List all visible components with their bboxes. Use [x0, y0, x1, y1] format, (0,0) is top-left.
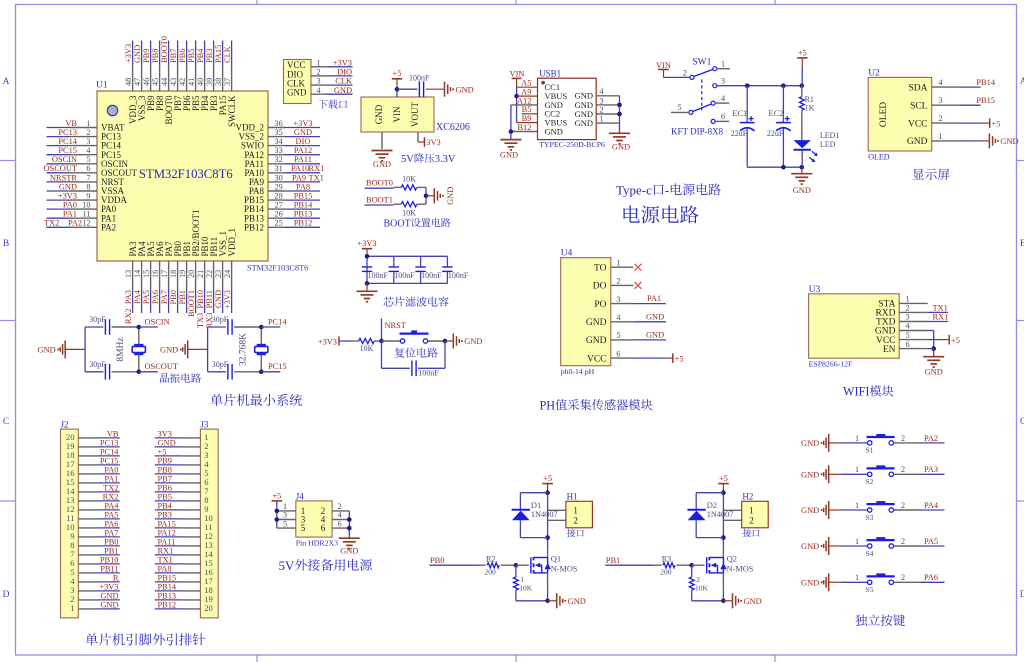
svg-text:GND: GND: [294, 128, 312, 137]
wire/net PB14: [959, 78, 995, 87]
wire USB1 right GND bus: [617, 96, 622, 133]
svg-text:PB10: PB10: [100, 556, 119, 565]
wire VIN to VBUS pins: [514, 78, 519, 122]
download-port pin 2 wire/net DIO: [311, 68, 353, 77]
svg-text:C: C: [1020, 417, 1024, 427]
svg-text:33: 33: [275, 146, 283, 155]
svg-text:+5: +5: [675, 354, 684, 363]
J3 pin 9 wire/net PB4: [155, 502, 209, 515]
svg-text:3: 3: [599, 96, 603, 105]
svg-text:200: 200: [660, 568, 672, 577]
svg-text:1: 1: [616, 258, 620, 267]
power port 3V3 at VOUT: [418, 132, 441, 147]
svg-text:RX2: RX2: [103, 493, 119, 502]
J3 pin 10 wire/net PB3: [155, 511, 213, 524]
svg-text:4: 4: [938, 78, 942, 87]
J3 pin 7 wire/net PB6: [155, 484, 210, 497]
J2 pin 7 wire/net PB1: [70, 547, 120, 560]
svg-text:PB8: PB8: [158, 466, 172, 475]
svg-text:10K: 10K: [519, 584, 533, 593]
svg-text:C: C: [3, 417, 9, 427]
svg-text:2: 2: [599, 105, 603, 114]
svg-text:N-MOS: N-MOS: [551, 565, 578, 574]
svg-text:PA12: PA12: [294, 146, 312, 155]
svg-text:1: 1: [721, 60, 725, 69]
svg-text:6: 6: [321, 523, 326, 533]
U1 pin 21 PB10 wire/net TX3 PB10: [196, 236, 210, 328]
wire/net GND pin4: [633, 312, 666, 322]
svg-text:+5: +5: [158, 448, 167, 457]
svg-text:PB13: PB13: [294, 210, 313, 219]
U1 pin 7 NRST wire/net NRSTR: [47, 173, 125, 187]
U1 pin 3 PC14 wire/net PC14: [47, 137, 122, 151]
svg-text:PA7: PA7: [160, 290, 169, 304]
J2 pin 6 wire/net PB10: [70, 556, 120, 569]
svg-text:SW1: SW1: [692, 58, 711, 68]
svg-text:PA9: PA9: [292, 173, 306, 182]
svg-text:XC6206: XC6206: [436, 122, 470, 133]
svg-text:GND: GND: [500, 151, 518, 160]
svg-text:GND: GND: [456, 85, 474, 94]
svg-text:B12: B12: [517, 122, 531, 132]
svg-text:OSCIN: OSCIN: [145, 317, 170, 326]
pushbutton reset switch: [382, 330, 448, 343]
USB1 right pin 3 GND: [575, 96, 620, 110]
svg-text:VIN: VIN: [392, 106, 402, 122]
wire 32.768K crystal left rail: [207, 327, 209, 372]
svg-text:PA11: PA11: [294, 155, 312, 164]
svg-text:STM32F103C8T6: STM32F103C8T6: [139, 167, 233, 181]
svg-text:1: 1: [855, 573, 859, 582]
svg-text:PB15: PB15: [294, 192, 313, 201]
label 5V-to-3.3V title: [401, 153, 456, 165]
wire S5 to net PA6: [894, 573, 945, 582]
ground port GND at S3: [801, 501, 829, 519]
switch SW1 KFT DIP-8X8: [671, 58, 730, 137]
wire SW1 pin3 to +5 rail: [717, 83, 804, 88]
svg-text:6: 6: [86, 164, 90, 173]
U1 pin 47 VSS_3 wire/net GND: [133, 41, 147, 122]
U1 pin 43 PB7 wire/net PB7: [169, 41, 183, 112]
svg-text:VB: VB: [107, 430, 119, 439]
capacitor EC2 22uF electrolytic: [767, 86, 791, 168]
label BOOT circuit title: [384, 218, 451, 229]
U4 pin 4 GND: [586, 313, 633, 328]
svg-text:5V: 5V: [279, 558, 296, 573]
svg-text:PB6: PB6: [158, 484, 172, 493]
svg-text:PA11: PA11: [158, 538, 176, 547]
svg-text:LED: LED: [820, 140, 836, 149]
svg-text:3: 3: [616, 295, 620, 304]
svg-text:1: 1: [520, 575, 524, 584]
svg-text:GND: GND: [100, 592, 118, 601]
svg-text:PC15: PC15: [268, 362, 287, 371]
U1 pin 33 PA12 wire/net PA12: [244, 146, 320, 160]
svg-text:D: D: [1020, 590, 1024, 600]
svg-text:PC14: PC14: [58, 137, 77, 146]
svg-text:CLK: CLK: [223, 46, 232, 63]
J2 pin 4 wire/net R: [70, 574, 120, 587]
svg-text:2: 2: [573, 515, 578, 525]
USB1 pin B12 GND: [511, 122, 563, 137]
wire S3 to net PA4: [894, 501, 945, 510]
svg-text:PA6: PA6: [104, 520, 118, 529]
U4 pin 5 GND: [586, 331, 633, 346]
U1 pin 41 PB5 wire/net PB5: [187, 41, 201, 112]
J4 right pin 6 wire: [332, 519, 349, 528]
svg-text:RX1: RX1: [309, 164, 325, 173]
svg-text:12: 12: [82, 219, 90, 228]
J4 left pin 5 wire: [277, 519, 296, 528]
U3 pin 5 VCC: [876, 331, 928, 346]
U1 pin 25 PB12 wire/net PB12: [244, 219, 320, 233]
download-port pin 1 wire/net +3V3: [311, 58, 353, 67]
svg-text:1: 1: [905, 295, 909, 304]
wire J4 left +5 rail: [275, 501, 280, 528]
J3 pin 11 wire/net PA15: [155, 520, 213, 533]
svg-text:STM32F103C8T6: STM32F103C8T6: [247, 264, 308, 273]
ground port GND at Q2: [723, 593, 761, 608]
U1 pin 28 PB15 wire/net PB15: [244, 192, 320, 206]
svg-text:PB9: PB9: [158, 457, 172, 466]
U1 pin 16 PA6 wire/net PA6: [151, 241, 165, 313]
U1 pin 19 PB1 wire/net PB1: [178, 241, 192, 313]
svg-text:U4: U4: [561, 249, 573, 259]
svg-text:1N4007: 1N4007: [531, 510, 558, 519]
J2 pin 1 wire/net GND: [70, 601, 120, 614]
pushbutton S5: [866, 573, 895, 594]
U4 pin 6 VCC: [587, 349, 633, 364]
wire/net PB1: [605, 556, 651, 565]
svg-text:GND: GND: [1000, 137, 1018, 146]
resistor 10K reset: [339, 338, 381, 352]
svg-text:PC13: PC13: [100, 439, 119, 448]
wire GND to S3: [829, 501, 868, 510]
U1 pin 34 SWIO wire/net DIO: [241, 137, 320, 151]
svg-text:R: R: [113, 574, 119, 583]
svg-text:26: 26: [275, 210, 283, 219]
svg-text:37: 37: [223, 78, 232, 86]
svg-text:PB0: PB0: [169, 290, 178, 304]
svg-text:VDD_1: VDD_1: [227, 228, 237, 257]
svg-text:2: 2: [901, 573, 905, 582]
svg-text:GND: GND: [801, 506, 819, 515]
wire GND to S1: [829, 434, 868, 443]
svg-text:GND: GND: [801, 579, 819, 588]
wire +5 rail to drain: [545, 490, 550, 557]
svg-text:PB12: PB12: [158, 601, 177, 610]
ground port GND at BOOT divider: [434, 187, 455, 205]
svg-text:GND: GND: [38, 346, 56, 355]
svg-text:GND: GND: [446, 187, 455, 205]
node gate junction: [689, 563, 704, 568]
svg-text:GND: GND: [612, 142, 630, 151]
label filter capacitors title: [383, 297, 448, 307]
wire GND to S4: [829, 537, 868, 546]
svg-text:BOOT1: BOOT1: [366, 195, 393, 204]
svg-text:B: B: [3, 239, 9, 249]
svg-text:ph0-14 pH: ph0-14 pH: [561, 367, 595, 376]
svg-text:1: 1: [855, 537, 859, 546]
J3 pin 15 wire/net TX1: [155, 556, 213, 569]
svg-text:PA5: PA5: [924, 537, 938, 546]
connector H2 body: [742, 492, 769, 537]
U2 pin 3 SCL: [910, 96, 959, 111]
J4 right pin 2 wire: [332, 502, 349, 511]
svg-text:PA5: PA5: [104, 511, 118, 520]
svg-text:25: 25: [275, 219, 283, 228]
svg-text:1: 1: [855, 465, 859, 474]
svg-text:Q1: Q1: [551, 554, 561, 564]
svg-text:PA1: PA1: [63, 210, 77, 219]
USB1 pin B9 VBUS: [517, 113, 568, 128]
svg-text:1: 1: [855, 501, 859, 510]
J3 pin 16 wire/net PA8: [155, 565, 214, 578]
no-connect X on U4 pin2: [635, 282, 642, 289]
svg-text:1: 1: [599, 115, 603, 124]
svg-text:PB5: PB5: [187, 49, 196, 63]
svg-text:PB12: PB12: [294, 219, 313, 228]
svg-text:43: 43: [169, 78, 178, 86]
svg-text:GND: GND: [586, 336, 607, 346]
led LED1: [794, 131, 840, 167]
svg-text:+5: +5: [951, 336, 960, 345]
svg-text:5: 5: [301, 523, 306, 533]
svg-text:30pF: 30pF: [212, 360, 229, 369]
svg-text:U3: U3: [809, 285, 821, 295]
svg-text:PB4: PB4: [158, 502, 173, 511]
svg-text:N-MOS: N-MOS: [727, 565, 754, 574]
svg-text:3: 3: [317, 77, 321, 86]
U3 pin 6 EN: [883, 340, 928, 355]
U2 pin 4 SDA: [908, 78, 959, 93]
ground GND below LED1: [791, 167, 812, 195]
svg-text:GND: GND: [646, 330, 664, 339]
svg-text:GND: GND: [160, 346, 178, 355]
svg-text:J2: J2: [61, 420, 69, 430]
ground port GND at 32.768K crystal: [160, 340, 208, 358]
svg-text:PB11: PB11: [100, 565, 118, 574]
svg-text:100nF: 100nF: [394, 271, 415, 280]
U1 pin 18 PB0 wire/net PB0: [169, 240, 183, 313]
svg-text:5: 5: [678, 103, 682, 112]
connector J4 body: [296, 491, 338, 547]
transistor Q1 N-MOS: [531, 554, 578, 574]
J3 pin 17 wire/net PB15: [155, 574, 214, 587]
svg-text:D2: D2: [707, 500, 717, 510]
svg-text:3: 3: [905, 313, 909, 322]
svg-text:PB1: PB1: [104, 547, 118, 556]
wire GND to S2: [829, 465, 868, 474]
svg-text:21: 21: [196, 270, 205, 278]
J2 pin 8 wire/net PB0: [70, 538, 120, 551]
svg-text:GND: GND: [586, 318, 607, 328]
U1 pin 31 PA10 wire/net PA10RX1: [244, 164, 324, 178]
svg-text:46: 46: [142, 78, 151, 86]
svg-text:PA6: PA6: [151, 290, 160, 304]
svg-text:GND: GND: [59, 182, 77, 191]
svg-text:TX1: TX1: [309, 173, 324, 182]
svg-text:OSCOUT: OSCOUT: [145, 362, 179, 371]
svg-text:28: 28: [275, 192, 283, 201]
label backup power title: [279, 558, 372, 573]
capacitor 100nF filter 2: [389, 256, 416, 283]
svg-text:27: 27: [275, 201, 283, 210]
svg-text:5: 5: [616, 331, 620, 340]
svg-text:4: 4: [86, 146, 90, 155]
svg-text:TX1: TX1: [933, 303, 948, 312]
svg-text:+5: +5: [798, 48, 807, 57]
svg-text:4: 4: [599, 87, 603, 96]
svg-text:2: 2: [317, 68, 321, 77]
svg-text:PB3: PB3: [205, 49, 214, 63]
capacitor 30pF top 32.768K: [208, 315, 262, 335]
U1 pin 8 VSSA wire/net GND: [47, 182, 125, 196]
svg-text:+3V3: +3V3: [58, 192, 77, 201]
svg-text:4: 4: [616, 313, 620, 322]
svg-text:PA1: PA1: [104, 475, 118, 484]
pushbutton S4: [866, 537, 895, 558]
svg-text:EC1: EC1: [732, 108, 747, 118]
svg-text:38: 38: [214, 78, 223, 86]
USB1 pin A12 GND: [511, 95, 563, 110]
J2 pin 11 wire/net PA5: [66, 511, 120, 524]
J2 pin 16 wire/net PA0: [66, 466, 120, 479]
svg-text:TO: TO: [594, 263, 607, 273]
svg-text:J4: J4: [296, 491, 305, 501]
svg-text:PC14: PC14: [100, 448, 119, 457]
svg-text:PC14: PC14: [268, 317, 287, 326]
label header breakout title: [85, 633, 205, 645]
svg-text:B: B: [1020, 239, 1024, 249]
diode D1 1N4007: [512, 493, 558, 538]
svg-text:U1: U1: [96, 81, 108, 91]
svg-text:NRSTR: NRSTR: [50, 173, 77, 182]
svg-text:5V: 5V: [401, 154, 414, 165]
svg-text:TX3 PB10: TX3 PB10: [196, 290, 205, 328]
J3 pin 8 wire/net PB5: [155, 493, 209, 506]
U1 pin 4 PC15 wire/net PC15: [47, 146, 122, 160]
power port +5 above R1: [797, 48, 808, 85]
wire filter-cap rails: [365, 254, 448, 286]
label independent buttons title: [855, 614, 905, 626]
svg-text:PB3: PB3: [158, 511, 172, 520]
svg-text:PB7: PB7: [158, 475, 172, 484]
svg-text:+5: +5: [393, 69, 402, 78]
svg-text:41: 41: [187, 78, 196, 86]
wire VIN to SW1 pin2: [664, 68, 690, 77]
svg-text:32: 32: [275, 155, 283, 164]
svg-text:GND: GND: [340, 547, 358, 556]
svg-text:S1: S1: [866, 446, 874, 455]
svg-text:+3V3: +3V3: [333, 58, 352, 67]
svg-text:10K: 10K: [402, 174, 416, 183]
capacitor 30pF bottom 32.768K: [208, 360, 262, 380]
svg-text:PB14: PB14: [294, 201, 313, 210]
svg-text:VIN: VIN: [656, 61, 671, 70]
svg-text:SCL: SCL: [910, 101, 928, 111]
wire S2 to net PA3: [894, 465, 945, 474]
svg-text:100nF: 100nF: [409, 74, 430, 83]
svg-text:3V3: 3V3: [426, 138, 440, 147]
power port +5 at U4 VCC: [633, 353, 683, 363]
power port +3V3 at reset: [318, 337, 339, 347]
ground GND below XC6206: [372, 132, 393, 169]
svg-text:11: 11: [83, 210, 91, 219]
U1 pin 37 SWCLK wire/net CLK: [223, 41, 237, 128]
J3 pin 3 wire/net +5: [155, 448, 209, 461]
svg-text:Type-c: Type-c: [616, 182, 652, 197]
resistor 2 10K pulldown: [689, 565, 708, 601]
U1 pin 39 PB3 wire/net PB3: [205, 41, 219, 112]
svg-text:SWCLK: SWCLK: [227, 95, 237, 127]
connector download-port body: [284, 60, 312, 104]
svg-text:PA2: PA2: [101, 222, 116, 232]
svg-text:GND: GND: [100, 601, 118, 610]
svg-text:1K: 1K: [805, 104, 815, 113]
label crystal circuit title: [160, 373, 201, 383]
svg-text:14: 14: [133, 270, 142, 278]
label reset circuit title: [395, 348, 438, 358]
U1 pin 13 PA3 wire/net RX2 PA3: [124, 241, 138, 324]
svg-text:23: 23: [214, 270, 223, 278]
J2 pin 17 wire/net PC15: [66, 457, 120, 470]
svg-text:1: 1: [749, 505, 754, 515]
svg-text:1: 1: [86, 119, 90, 128]
transistor Q2 N-MOS: [707, 554, 754, 574]
svg-text:1N4007: 1N4007: [707, 510, 734, 519]
svg-text:SDA: SDA: [908, 83, 927, 93]
wire/net OSCIN: [137, 317, 170, 329]
U1 pin 45 PB8 wire/net PB8: [151, 41, 165, 112]
wire GND pins to ground (left): [509, 105, 514, 139]
svg-text:GND: GND: [801, 471, 819, 480]
U1 pin 10 PA0 wire/net PA0: [47, 201, 117, 215]
display U2 OLED body: [868, 68, 932, 161]
svg-text:PA7: PA7: [104, 529, 118, 538]
svg-text:PA3: PA3: [924, 465, 938, 474]
J2 pin 10 wire/net PA6: [66, 520, 120, 533]
svg-text:10K: 10K: [402, 209, 416, 218]
svg-text:PB13: PB13: [158, 592, 177, 601]
svg-text:4: 4: [721, 94, 725, 103]
svg-text:3.3V: 3.3V: [435, 154, 456, 165]
label MCU minimal system title: [210, 394, 302, 406]
wire/net TX1: [928, 303, 948, 312]
svg-text:GND: GND: [793, 186, 811, 195]
svg-text:40: 40: [196, 78, 205, 86]
svg-text:BOOT1: BOOT1: [187, 290, 196, 317]
capacitor 100nF filter 1: [362, 267, 389, 280]
connector J2 body: [61, 420, 79, 618]
U1 pin 23 VSS_1 wire/net GND: [214, 231, 228, 313]
svg-text:1: 1: [317, 58, 321, 67]
svg-text:PA1: PA1: [647, 294, 661, 303]
svg-text:GND: GND: [575, 118, 593, 128]
ground port GND at reset button: [445, 334, 482, 349]
wire/net PB0: [429, 556, 475, 565]
U1 pin 36 VDD_2 wire/net +3V3: [236, 119, 321, 133]
svg-text:2: 2: [901, 537, 905, 546]
wire H2 pin1: [723, 509, 741, 511]
USB1 right pin 4 GND: [575, 87, 620, 101]
wire H2 pin2: [723, 519, 741, 521]
svg-text:KFT DIP-8X8: KFT DIP-8X8: [671, 126, 724, 136]
ground port GND at S5: [801, 573, 829, 591]
svg-text:45: 45: [151, 78, 160, 86]
svg-text:Pin HDR2X3: Pin HDR2X3: [296, 539, 338, 548]
svg-text:4: 4: [905, 322, 909, 331]
